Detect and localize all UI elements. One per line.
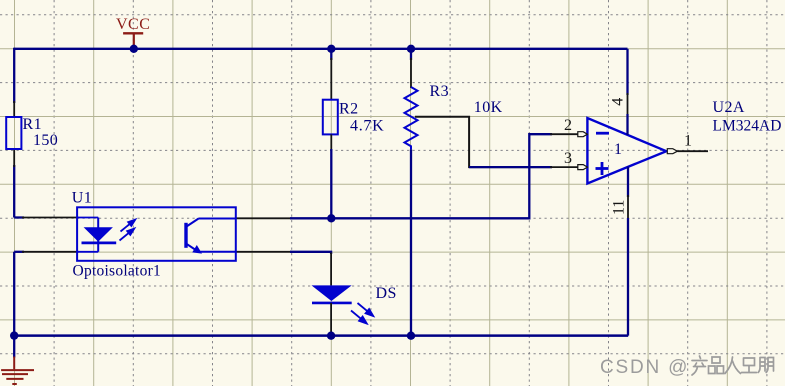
- svg-text:10K: 10K: [474, 99, 503, 116]
- pin R2 top: [330, 58, 332, 100]
- pin R3 top: [410, 58, 412, 88]
- ground symbol: [1, 357, 34, 385]
- wire pin4 stub into triangle: [626, 114, 628, 135]
- U1 phototransistor: [184, 219, 236, 254]
- pin U2A pin3 lead: [550, 166, 579, 168]
- pin 2 arrowhead: [578, 132, 588, 137]
- wire junction to op-amp pin2 riser: [331, 134, 552, 218]
- op-amp U2A triangle: [587, 118, 666, 184]
- resistor R2: [323, 100, 338, 135]
- pin U1 anode: [22, 217, 79, 219]
- svg-text:R1: R1: [23, 116, 42, 133]
- pin R1 top: [13, 101, 15, 117]
- svg-text:150: 150: [33, 132, 58, 149]
- power VCC: [116, 16, 150, 48]
- svg-text:4: 4: [610, 98, 627, 106]
- pin 4 lead: [627, 93, 629, 116]
- svg-text:Optoisolator1: Optoisolator1: [73, 262, 162, 279]
- wire emitter to DS corner: [290, 252, 331, 254]
- pin U2A pin2 lead: [550, 133, 579, 135]
- junction DS ground rail: [327, 332, 335, 340]
- wire bottom ground rail: [14, 334, 628, 337]
- pin 11 lead: [627, 195, 629, 220]
- wire U1 anode horizontal: [14, 216, 24, 218]
- wire left vertical lower (R1 to U1 anode): [13, 165, 15, 218]
- U1 cathode inner lead: [78, 251, 99, 253]
- wire U1 cathode horizontal: [14, 251, 24, 253]
- wire R3 bottom to ground rail: [410, 149, 412, 335]
- op-amp plus mark: [596, 162, 609, 175]
- resistor R1: [6, 117, 21, 149]
- op-amp output hotspot arrow: [667, 149, 677, 154]
- junction left ground rail: [10, 331, 18, 339]
- junction R3 top rail: [407, 45, 415, 53]
- svg-text:1: 1: [614, 141, 622, 158]
- svg-text:U1: U1: [72, 190, 92, 207]
- junction R3 ground rail: [407, 332, 415, 340]
- LED DS: [312, 285, 352, 303]
- pin DS cathode: [330, 303, 332, 336]
- wire op-amp pin4 from rail: [626, 49, 628, 95]
- svg-text:1: 1: [684, 133, 692, 150]
- svg-text:R3: R3: [430, 83, 449, 100]
- svg-text:2: 2: [564, 117, 572, 134]
- wire pin11 stub from triangle: [627, 167, 629, 198]
- pin U1 cathode: [22, 251, 79, 253]
- pin R1 bottom: [13, 149, 15, 167]
- op-amp minus mark: [596, 132, 609, 135]
- wire left vertical upper (VCC rail to R1): [13, 48, 15, 103]
- wire R2 top stub: [330, 48, 332, 60]
- U1 internal LED: [82, 218, 117, 252]
- resistor R3 zigzag: [405, 87, 418, 149]
- junction R2 top rail: [327, 45, 335, 53]
- pin 3 arrowhead: [578, 165, 588, 170]
- svg-text:DS: DS: [376, 285, 397, 302]
- wire R3 tap to op-amp pin3: [415, 117, 552, 167]
- svg-text:3: 3: [564, 150, 572, 167]
- DS emission arrows: [351, 303, 373, 324]
- pin R2 bottom: [330, 134, 332, 151]
- svg-text:R2: R2: [339, 101, 358, 118]
- wire pin3 segment: [469, 166, 552, 168]
- wire top VCC rail: [14, 48, 627, 50]
- svg-text:U2A: U2A: [713, 99, 745, 116]
- optoisolator U1 body: [77, 207, 236, 260]
- wire pin11 to ground rail: [627, 218, 629, 336]
- pin U1 collector: [236, 217, 292, 219]
- svg-text:CSDN @: CSDN @: [600, 357, 689, 378]
- svg-text:VCC: VCC: [116, 16, 150, 33]
- watermark CSDN: [600, 357, 689, 378]
- wire R3 top stub: [410, 48, 412, 60]
- svg-text:LM324AD: LM324AD: [713, 117, 782, 134]
- watermark chinese glyphs: [692, 356, 774, 375]
- svg-text:11: 11: [611, 200, 628, 215]
- wire R2 bottom to junction: [330, 149, 332, 218]
- U1 LED emission arrows: [120, 220, 136, 241]
- U1 anode inner lead: [78, 217, 99, 219]
- wire ground stub: [13, 336, 15, 358]
- wire collector to junction: [290, 217, 331, 219]
- junction R2 collector node: [327, 214, 335, 222]
- wire op-amp output: [678, 150, 709, 152]
- svg-text:4.7K: 4.7K: [350, 117, 384, 134]
- junction VCC rail: [130, 45, 138, 53]
- wire left lower vertical (U1 cathode to ground rail): [13, 252, 15, 336]
- pin U1 emitter: [236, 251, 292, 253]
- pin DS anode: [330, 253, 332, 286]
